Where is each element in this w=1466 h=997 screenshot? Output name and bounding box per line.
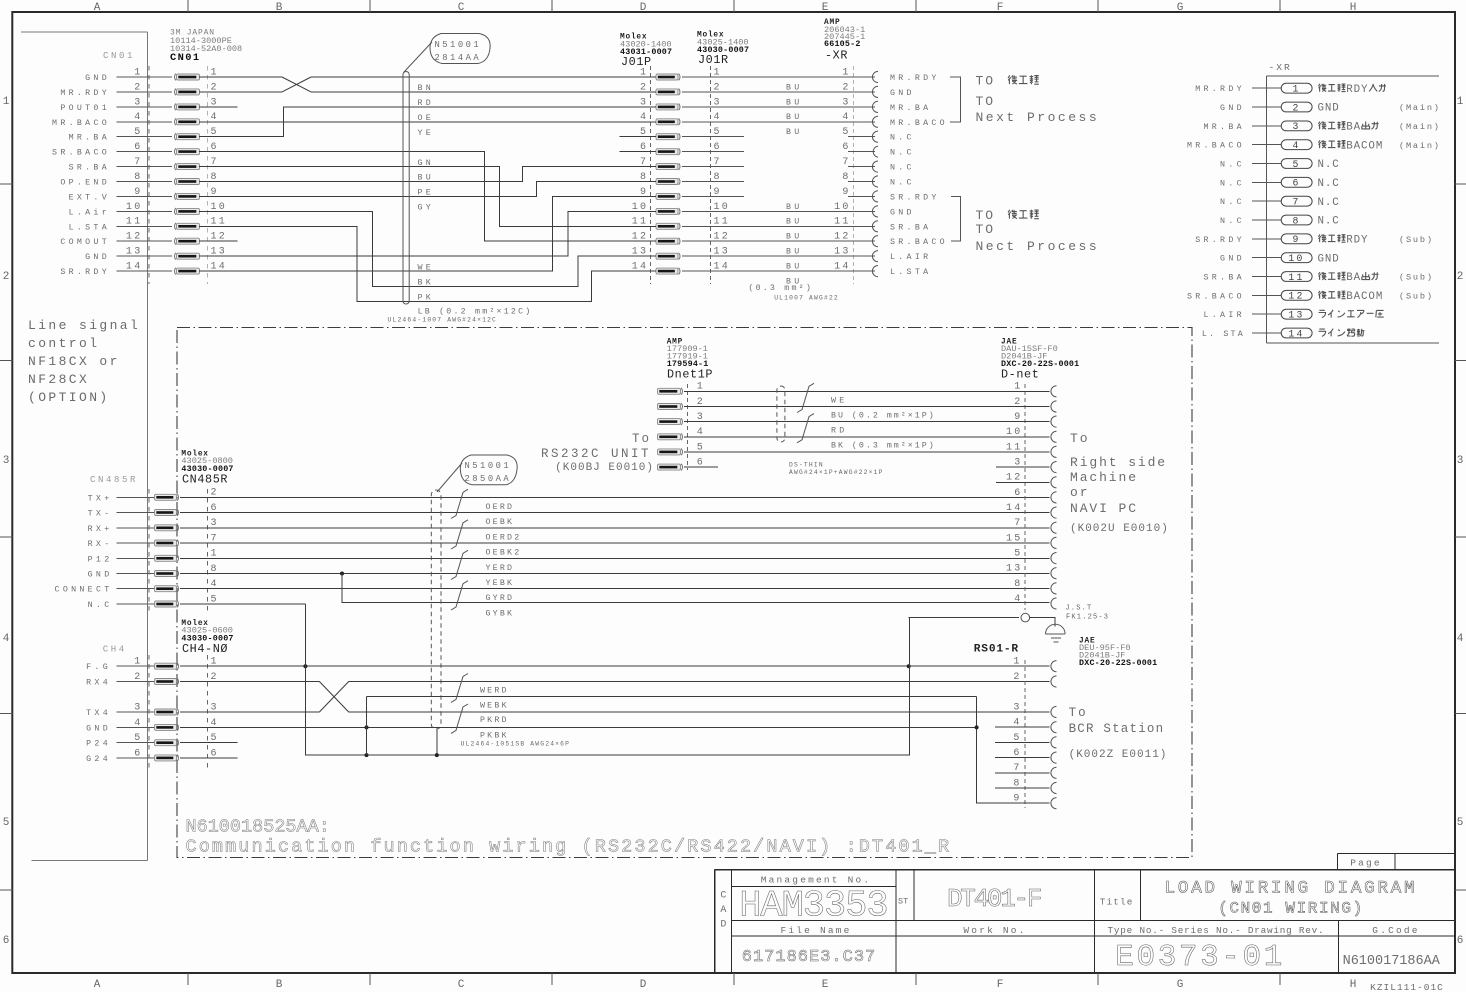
- svg-text:BU: BU: [786, 113, 803, 122]
- svg-text:10: 10: [126, 202, 143, 213]
- svg-text:BK (0.3 mm²×1P): BK (0.3 mm²×1P): [831, 441, 936, 451]
- svg-text:NF18CX or: NF18CX or: [28, 354, 120, 369]
- svg-text:G.Code: G.Code: [1372, 925, 1419, 936]
- svg-text:(K00BJ E0010): (K00BJ E0010): [555, 462, 654, 474]
- svg-text:NAVI PC: NAVI PC: [1070, 501, 1138, 516]
- svg-text:(Sub): (Sub): [1399, 292, 1434, 302]
- svg-text:D: D: [720, 920, 726, 931]
- svg-text:GND: GND: [1318, 103, 1340, 115]
- svg-text:BA: BA: [1346, 272, 1361, 284]
- svg-text:(K002Z E0011): (K002Z E0011): [1069, 749, 1168, 761]
- svg-text:RX-: RX-: [88, 540, 113, 549]
- svg-text:SR.BACO: SR.BACO: [1187, 292, 1245, 301]
- svg-text:2814AA: 2814AA: [435, 53, 482, 63]
- svg-text:OE: OE: [418, 114, 435, 123]
- svg-text:14: 14: [126, 262, 143, 273]
- svg-text:RS01-R: RS01-R: [974, 643, 1019, 655]
- svg-text:2: 2: [1013, 672, 1021, 683]
- svg-text:1: 1: [1457, 96, 1464, 108]
- svg-text:N51001: N51001: [435, 40, 482, 50]
- svg-text:3: 3: [1457, 455, 1464, 467]
- svg-text:9: 9: [1292, 234, 1300, 245]
- svg-text:Page: Page: [1350, 857, 1382, 868]
- svg-text:BU: BU: [786, 203, 803, 212]
- svg-text:8: 8: [1014, 579, 1022, 590]
- svg-text:OEBK2: OEBK2: [486, 549, 522, 558]
- svg-text:H: H: [1350, 2, 1357, 14]
- svg-text:MR.BACO: MR.BACO: [52, 119, 110, 128]
- svg-text:N.C: N.C: [1220, 217, 1245, 226]
- svg-text:OERD2: OERD2: [486, 533, 522, 542]
- svg-text:CH4: CH4: [103, 645, 127, 655]
- svg-text:WE: WE: [831, 397, 848, 406]
- svg-text:P24: P24: [86, 740, 111, 749]
- svg-text:N.C: N.C: [890, 149, 915, 158]
- svg-text:YERD: YERD: [486, 564, 515, 573]
- svg-text:E0373-01: E0373-01: [1115, 940, 1285, 975]
- svg-text:(Sub): (Sub): [1399, 235, 1434, 245]
- svg-text:BCR Station: BCR Station: [1069, 722, 1165, 736]
- svg-text:TO: TO: [976, 222, 996, 237]
- svg-text:BU: BU: [786, 233, 803, 242]
- svg-text:BN: BN: [418, 84, 435, 93]
- svg-text:GYRD: GYRD: [486, 594, 515, 603]
- svg-text:N.C: N.C: [890, 164, 915, 173]
- svg-text:RD: RD: [831, 427, 848, 436]
- svg-text:TX+: TX+: [88, 494, 113, 503]
- svg-text:4: 4: [3, 633, 10, 645]
- svg-text:TO: TO: [976, 208, 996, 223]
- svg-text:6: 6: [3, 935, 10, 947]
- svg-text:MR.RDY: MR.RDY: [60, 89, 110, 98]
- svg-text:L.STA: L.STA: [890, 268, 931, 277]
- svg-text:TO: TO: [976, 94, 996, 109]
- svg-text:617186E3.C37: 617186E3.C37: [742, 948, 876, 967]
- svg-text:RX4: RX4: [86, 679, 111, 688]
- svg-text:MR.BACO: MR.BACO: [1187, 142, 1245, 151]
- svg-text:5: 5: [1457, 817, 1464, 829]
- svg-text:SR.BA: SR.BA: [890, 223, 931, 232]
- svg-text:A: A: [94, 979, 101, 991]
- svg-text:TX4: TX4: [86, 709, 111, 718]
- svg-text:F: F: [997, 979, 1004, 991]
- svg-text:N610017186AA: N610017186AA: [1343, 954, 1441, 969]
- svg-text:Work No.: Work No.: [963, 925, 1026, 936]
- svg-text:4: 4: [1457, 633, 1464, 645]
- svg-text:D: D: [640, 979, 647, 991]
- svg-text:E: E: [822, 2, 829, 14]
- svg-text:6: 6: [134, 748, 142, 759]
- svg-text:N.C: N.C: [1220, 179, 1245, 188]
- svg-text:GND: GND: [85, 253, 110, 262]
- svg-text:SR.BACO: SR.BACO: [52, 149, 110, 158]
- svg-text:D-net: D-net: [1001, 367, 1039, 381]
- svg-text:D: D: [640, 2, 647, 14]
- svg-text:(0.3 mm²): (0.3 mm²): [748, 283, 813, 293]
- svg-text:L.AIR: L.AIR: [890, 253, 931, 262]
- svg-text:C: C: [458, 2, 465, 14]
- svg-text:KZIL111-01C: KZIL111-01C: [1370, 982, 1444, 992]
- svg-text:CN485R: CN485R: [90, 475, 138, 485]
- svg-text:Type No.- Series No.- Drawing: Type No.- Series No.- Drawing Rev.: [1108, 925, 1325, 936]
- svg-text:BU (0.2 mm²×1P): BU (0.2 mm²×1P): [831, 411, 936, 421]
- svg-text:To: To: [632, 432, 651, 446]
- svg-text:BU: BU: [786, 98, 803, 107]
- svg-text:F: F: [997, 2, 1004, 14]
- svg-text:G: G: [1177, 2, 1184, 14]
- svg-text:LOAD WIRING DIAGRAM: LOAD WIRING DIAGRAM: [1165, 879, 1418, 899]
- svg-text:BACOM: BACOM: [1346, 140, 1383, 152]
- svg-text:N.C: N.C: [1220, 198, 1245, 207]
- svg-text:BU: BU: [786, 128, 803, 137]
- svg-text:N.C: N.C: [1318, 178, 1340, 190]
- svg-text:1: 1: [134, 657, 142, 668]
- svg-text:6: 6: [1014, 488, 1022, 499]
- svg-text:Nect Process: Nect Process: [976, 239, 1100, 254]
- svg-text:SR.RDY: SR.RDY: [60, 268, 110, 277]
- svg-text:4: 4: [134, 718, 142, 729]
- svg-text:3: 3: [3, 455, 10, 467]
- svg-text:To: To: [1070, 431, 1090, 446]
- svg-text:GYBK: GYBK: [486, 610, 515, 619]
- svg-text:MR.RDY: MR.RDY: [890, 74, 940, 83]
- svg-text:CN01: CN01: [170, 52, 201, 64]
- svg-text:-XR: -XR: [825, 49, 848, 63]
- svg-text:To: To: [1069, 706, 1088, 720]
- svg-text:SR.BA: SR.BA: [1203, 274, 1244, 283]
- svg-text:N.C: N.C: [1318, 197, 1340, 209]
- svg-text:BU: BU: [786, 218, 803, 227]
- svg-text:GND: GND: [1220, 255, 1245, 264]
- svg-text:BU: BU: [786, 263, 803, 272]
- svg-text:MR.BACO: MR.BACO: [890, 119, 948, 128]
- svg-text:RDY: RDY: [1346, 234, 1368, 246]
- svg-text:1: 1: [3, 96, 10, 108]
- svg-text:YEBK: YEBK: [486, 579, 515, 588]
- svg-text:LB (0.2 mm²×12C): LB (0.2 mm²×12C): [418, 307, 533, 317]
- svg-text:3: 3: [1292, 121, 1300, 132]
- svg-text:N.C: N.C: [1318, 216, 1340, 228]
- svg-text:File Name: File Name: [780, 925, 851, 936]
- svg-text:2: 2: [1457, 271, 1464, 283]
- svg-text:4: 4: [134, 112, 142, 123]
- svg-text:GND: GND: [88, 571, 113, 580]
- svg-text:L.Air: L.Air: [69, 207, 110, 217]
- svg-text:WEBK: WEBK: [480, 702, 509, 711]
- svg-text:3: 3: [134, 97, 142, 108]
- svg-text:H: H: [1350, 979, 1357, 991]
- svg-text:13: 13: [126, 247, 143, 258]
- svg-text:OEBK: OEBK: [486, 518, 515, 527]
- svg-text:MR.RDY: MR.RDY: [1195, 85, 1245, 94]
- svg-text:11: 11: [1288, 272, 1304, 283]
- svg-text:DS-THIN: DS-THIN: [789, 462, 824, 469]
- svg-text:DT401-F: DT401-F: [947, 884, 1041, 914]
- svg-text:(CN01 WIRING): (CN01 WIRING): [1218, 900, 1364, 918]
- svg-text:N.C: N.C: [1220, 161, 1245, 170]
- svg-text:GN: GN: [418, 159, 435, 168]
- svg-text:OERD: OERD: [486, 503, 515, 512]
- svg-text:4: 4: [1014, 594, 1022, 605]
- svg-text:2: 2: [1292, 102, 1300, 113]
- svg-text:Right side: Right side: [1070, 455, 1167, 470]
- svg-text:14: 14: [1288, 328, 1304, 339]
- svg-text:BA: BA: [1346, 122, 1361, 134]
- svg-text:12: 12: [126, 232, 143, 243]
- svg-text:N.C: N.C: [890, 179, 915, 188]
- svg-text:GND: GND: [890, 89, 915, 98]
- svg-text:5: 5: [1014, 549, 1022, 560]
- svg-text:TO: TO: [976, 74, 996, 89]
- svg-text:-XR: -XR: [1269, 62, 1292, 73]
- svg-text:BK: BK: [418, 279, 435, 288]
- svg-text:GND: GND: [1220, 104, 1245, 113]
- svg-text:BACOM: BACOM: [1346, 291, 1383, 303]
- svg-text:F.G: F.G: [86, 663, 111, 672]
- svg-text:7: 7: [134, 157, 142, 168]
- svg-text:1: 1: [1013, 657, 1021, 668]
- svg-text:(OPTION): (OPTION): [28, 390, 110, 405]
- svg-text:N.C: N.C: [1318, 159, 1340, 171]
- svg-text:WERD: WERD: [480, 687, 509, 696]
- svg-text:COMOUT: COMOUT: [60, 238, 110, 247]
- svg-text:CH4-NØ: CH4-NØ: [182, 642, 228, 656]
- svg-text:1: 1: [1292, 84, 1300, 95]
- svg-text:UL2464-1051SB AWG24×6P: UL2464-1051SB AWG24×6P: [461, 741, 571, 748]
- svg-text:SR.RDY: SR.RDY: [890, 193, 940, 202]
- svg-text:TX-: TX-: [88, 510, 113, 519]
- svg-text:CN01: CN01: [103, 51, 135, 61]
- svg-text:FK1.25-3: FK1.25-3: [1066, 614, 1109, 622]
- svg-text:UL1007 AWG#22: UL1007 AWG#22: [774, 294, 839, 301]
- svg-text:2: 2: [3, 271, 10, 283]
- svg-text:GND: GND: [1318, 253, 1340, 265]
- svg-text:(Main): (Main): [1399, 103, 1441, 113]
- svg-text:N51001: N51001: [465, 461, 512, 471]
- svg-text:G: G: [1177, 979, 1184, 991]
- svg-text:B: B: [276, 2, 283, 14]
- svg-text:C: C: [458, 979, 465, 991]
- svg-text:YE: YE: [418, 129, 435, 138]
- svg-text:control: control: [28, 336, 99, 351]
- svg-text:GND: GND: [86, 724, 111, 733]
- svg-text:PKRD: PKRD: [480, 716, 509, 725]
- svg-text:SR.RDY: SR.RDY: [1195, 236, 1245, 245]
- svg-text:Management No.: Management No.: [761, 875, 872, 886]
- svg-text:RDY: RDY: [1346, 84, 1368, 96]
- svg-text:2850AA: 2850AA: [465, 474, 512, 484]
- svg-text:4: 4: [1292, 140, 1300, 151]
- svg-text:10: 10: [1288, 253, 1304, 264]
- svg-text:13: 13: [1288, 310, 1304, 321]
- svg-text:Title: Title: [1100, 897, 1134, 908]
- svg-text:RS232C UNIT: RS232C UNIT: [541, 447, 651, 461]
- svg-text:5: 5: [1292, 159, 1300, 170]
- svg-text:11: 11: [126, 217, 143, 228]
- svg-text:A: A: [94, 2, 101, 14]
- svg-text:PKBK: PKBK: [480, 732, 509, 741]
- svg-text:6: 6: [134, 142, 142, 153]
- svg-text:BU: BU: [786, 248, 803, 257]
- svg-text:8: 8: [1292, 215, 1300, 226]
- svg-text:or: or: [1070, 485, 1089, 500]
- svg-text:7: 7: [1292, 197, 1300, 208]
- svg-text:2: 2: [134, 82, 142, 93]
- svg-text:5: 5: [134, 733, 142, 744]
- svg-text:BU: BU: [786, 83, 803, 92]
- svg-text:WE: WE: [418, 263, 435, 272]
- svg-text:6: 6: [1292, 178, 1300, 189]
- svg-text:SR.BA: SR.BA: [69, 164, 110, 173]
- svg-text:(Main): (Main): [1399, 122, 1441, 132]
- svg-text:BU: BU: [418, 174, 435, 183]
- svg-text:RX+: RX+: [88, 525, 113, 534]
- svg-text:PE: PE: [418, 189, 435, 198]
- svg-text:Communication function wiring: Communication function wiring (RS232C/RS…: [186, 837, 952, 858]
- svg-text:HAM3353: HAM3353: [739, 886, 887, 928]
- svg-text:8: 8: [134, 172, 142, 183]
- svg-text:(Main): (Main): [1399, 141, 1441, 151]
- svg-text:EXT.V: EXT.V: [69, 193, 110, 202]
- svg-text:Line signal: Line signal: [28, 318, 140, 333]
- svg-text:AWG#24×1P+AWG#22×1P: AWG#24×1P+AWG#22×1P: [789, 469, 884, 476]
- svg-text:J.S.T: J.S.T: [1065, 605, 1092, 613]
- svg-text:MR.BA: MR.BA: [1203, 123, 1244, 132]
- svg-text:C: C: [720, 891, 726, 902]
- svg-text:13: 13: [1006, 564, 1023, 575]
- svg-text:UL2464-1007 AWG#24×12C: UL2464-1007 AWG#24×12C: [388, 317, 498, 324]
- svg-text:A: A: [720, 905, 726, 916]
- svg-text:6: 6: [1457, 935, 1464, 947]
- svg-text:MR.BA: MR.BA: [890, 104, 931, 113]
- svg-text:OP.END: OP.END: [60, 179, 110, 188]
- svg-text:P12: P12: [88, 555, 113, 564]
- svg-text:2: 2: [134, 672, 142, 683]
- svg-text:SR.BACO: SR.BACO: [890, 238, 948, 247]
- svg-text:CN485R: CN485R: [182, 472, 228, 486]
- svg-text:12: 12: [1288, 291, 1304, 302]
- svg-text:14: 14: [1006, 503, 1023, 514]
- svg-text:RD: RD: [418, 99, 435, 108]
- svg-text:E: E: [822, 979, 829, 991]
- svg-text:MR.BA: MR.BA: [69, 134, 110, 143]
- svg-text:L. STA: L. STA: [1202, 330, 1245, 339]
- svg-text:5: 5: [134, 127, 142, 138]
- svg-text:(Sub): (Sub): [1399, 273, 1434, 283]
- svg-text:N.C: N.C: [890, 134, 915, 143]
- svg-text:Machine: Machine: [1070, 470, 1138, 485]
- svg-text:DXC-20-22S-0001: DXC-20-22S-0001: [1079, 658, 1157, 668]
- svg-text:GND: GND: [890, 208, 915, 217]
- svg-text:9: 9: [134, 187, 142, 198]
- svg-text:B: B: [276, 979, 283, 991]
- svg-text:N.C: N.C: [88, 601, 113, 610]
- svg-text:J01R: J01R: [698, 53, 729, 67]
- svg-text:15: 15: [1006, 533, 1023, 544]
- svg-text:N610018525AA:: N610018525AA:: [186, 817, 330, 838]
- svg-text:GND: GND: [85, 74, 110, 83]
- svg-text:PK: PK: [418, 294, 435, 303]
- svg-text:CONNECT: CONNECT: [55, 586, 113, 595]
- svg-text:7: 7: [1014, 518, 1022, 529]
- svg-text:ST: ST: [898, 897, 908, 907]
- svg-text:3: 3: [134, 702, 142, 713]
- svg-text:GY: GY: [418, 204, 435, 213]
- svg-text:Dnet1P: Dnet1P: [667, 367, 713, 381]
- svg-text:POUT01: POUT01: [60, 104, 110, 113]
- svg-text:Next Process: Next Process: [976, 110, 1100, 125]
- svg-text:NF28CX: NF28CX: [28, 372, 89, 387]
- svg-text:G24: G24: [86, 755, 111, 764]
- svg-text:L.STA: L.STA: [69, 223, 110, 232]
- svg-text:L.AIR: L.AIR: [1203, 311, 1244, 320]
- svg-text:5: 5: [3, 817, 10, 829]
- svg-text:(K002U E0010): (K002U E0010): [1070, 523, 1169, 535]
- svg-text:1: 1: [134, 67, 142, 78]
